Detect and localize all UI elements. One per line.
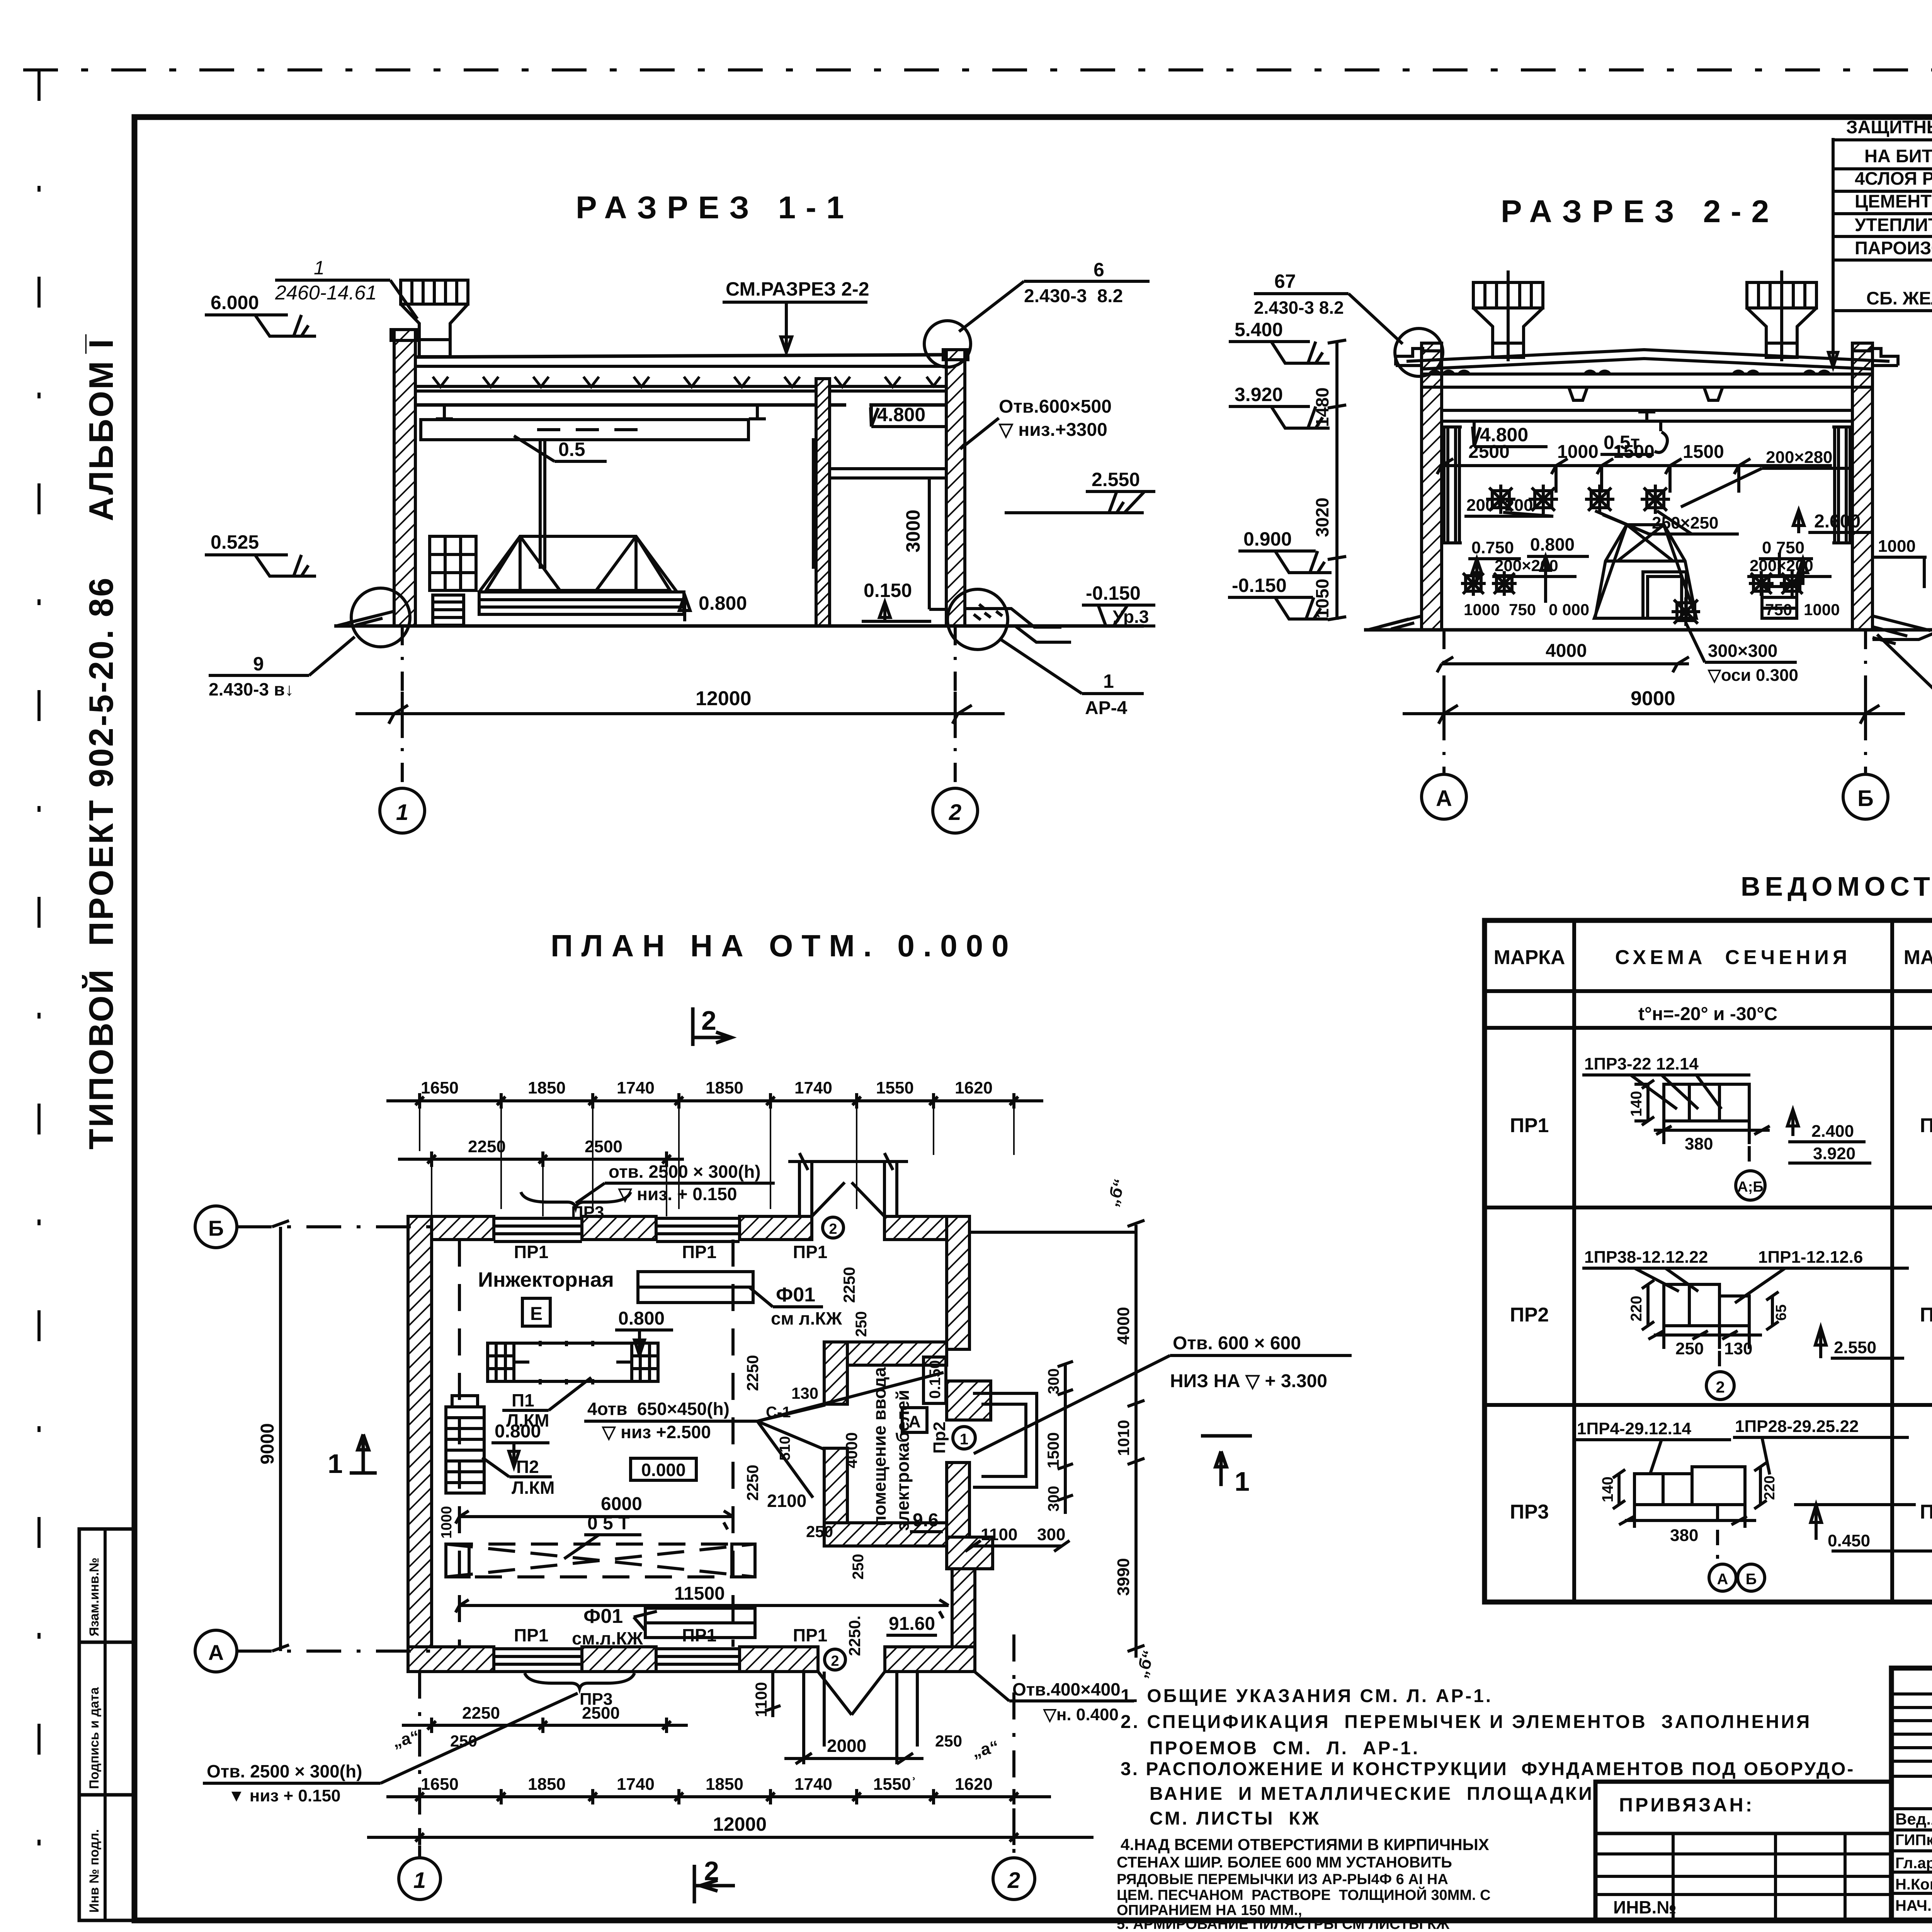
- svg-text:А: А: [1436, 786, 1452, 811]
- svg-text:НИЗ НА ▽ + 3.300: НИЗ НА ▽ + 3.300: [1170, 1371, 1327, 1391]
- svg-text:0.800: 0.800: [618, 1308, 665, 1329]
- svg-text:С-1: С-1: [766, 1404, 791, 1421]
- svg-text:1650: 1650: [421, 1078, 459, 1097]
- svg-text:1010: 1010: [1114, 1420, 1133, 1456]
- svg-text:ПР1: ПР1: [1510, 1114, 1549, 1137]
- svg-text:0.800: 0.800: [699, 592, 747, 614]
- svg-text:Отв.600×500: Отв.600×500: [999, 396, 1112, 417]
- Ф01 beam bottom: [645, 1608, 755, 1638]
- svg-text:1850: 1850: [528, 1078, 566, 1097]
- svg-text:1100: 1100: [752, 1682, 770, 1717]
- svg-text:1650: 1650: [421, 1775, 459, 1794]
- I beam symbol: [1638, 412, 1655, 421]
- pedestal bolts lower left: [1461, 571, 1517, 596]
- outer trim dashed border top: [23, 68, 1932, 71]
- svg-text:А;Б: А;Б: [1737, 1179, 1763, 1195]
- svg-text:П1: П1: [512, 1390, 534, 1410]
- svg-text:65: 65: [1773, 1304, 1789, 1321]
- svg-text:СБ. ЖЕЛ. БЕТ. ПЛИТЫ: СБ. ЖЕЛ. БЕТ. ПЛИТЫ: [1866, 288, 1932, 308]
- top dim row B: [398, 1151, 684, 1167]
- svg-text:1000: 1000: [439, 1506, 455, 1539]
- equipment: ladder left: [433, 595, 464, 625]
- right wall upper: [947, 1216, 969, 1349]
- svg-text:0 750: 0 750: [1762, 538, 1804, 557]
- svg-text:А: А: [908, 1412, 921, 1431]
- svg-text:Б: Б: [1857, 786, 1874, 811]
- svg-text:1550: 1550: [876, 1078, 914, 1097]
- svg-text:4.НАД ВСЕМИ ОТВЕРСТИЯМИ В КИРП: 4.НАД ВСЕМИ ОТВЕРСТИЯМИ В КИРПИЧНЫХ: [1121, 1835, 1489, 1854]
- svg-text:А: А: [208, 1640, 224, 1665]
- verticals: [1572, 920, 1576, 1602]
- svg-text:РЯДОВЫЕ ПЕРЕМЫЧКИ ИЗ АР-РЫ4Ф 6: РЯДОВЫЕ ПЕРЕМЫЧКИ ИЗ АР-РЫ4Ф 6 АI НА: [1117, 1871, 1448, 1888]
- svg-text:2250: 2250: [743, 1355, 762, 1391]
- svg-text:-0.150: -0.150: [1232, 575, 1287, 596]
- monorail dashed: [446, 1544, 755, 1577]
- bottom axis circles: [418, 1672, 421, 1857]
- svg-text:2460-14.61: 2460-14.61: [275, 282, 377, 304]
- svg-text:510: 510: [777, 1436, 793, 1461]
- svg-text:Отв.400×400: Отв.400×400: [1012, 1679, 1121, 1699]
- svg-text:см.л.КЖ: см.л.КЖ: [572, 1628, 643, 1648]
- svg-text:1: 1: [1235, 1466, 1250, 1497]
- svg-text:см л.КЖ: см л.КЖ: [771, 1308, 842, 1328]
- svg-text:▽ низ. + 0.150: ▽ низ. + 0.150: [617, 1184, 737, 1204]
- svg-text:750: 750: [1765, 600, 1792, 619]
- roof rib ticks: [433, 377, 940, 387]
- svg-text:2250: 2250: [462, 1704, 500, 1723]
- svg-text:0.150: 0.150: [927, 1360, 944, 1399]
- vent shaft 2: [1747, 270, 1816, 361]
- svg-text:Е: Е: [530, 1304, 543, 1324]
- axis Б: [195, 1206, 237, 1248]
- svg-text:1850: 1850: [706, 1078, 743, 1097]
- svg-text:▼ низ + 0.150: ▼ низ + 0.150: [228, 1786, 341, 1805]
- top tambour walls: [799, 1162, 897, 1216]
- svg-text:2: 2: [701, 1005, 716, 1036]
- svg-text:0.900: 0.900: [1243, 528, 1292, 550]
- svg-text:4.800: 4.800: [877, 404, 925, 425]
- LEFT MARGIN: [79, 334, 134, 1920]
- svg-text:2.550: 2.550: [1092, 469, 1140, 490]
- tambour dim line: [788, 1153, 908, 1170]
- ПР3 brace bottom: [525, 1673, 634, 1689]
- svg-text:▽ низ.+3300: ▽ низ.+3300: [998, 420, 1107, 440]
- bottom wall: [408, 1647, 975, 1672]
- svg-text:140: 140: [1628, 1091, 1645, 1117]
- vent shaft top: [401, 280, 468, 357]
- top dim row A: [386, 1093, 1043, 1109]
- svg-text:ЦЕМЕНТНО-ПЕСЧАНАЯ СТЯЖКА М50: ЦЕМЕНТНО-ПЕСЧАНАЯ СТЯЖКА М50 7÷15 ММ ПО …: [1855, 191, 1932, 211]
- top wall: [408, 1216, 947, 1240]
- detail circle left: [351, 588, 410, 647]
- svg-text:3990: 3990: [1114, 1558, 1133, 1596]
- svg-text:1000: 1000: [1878, 537, 1916, 556]
- svg-text:Отв. 2500 × 300(h): Отв. 2500 × 300(h): [207, 1761, 362, 1781]
- monorail beam: [421, 420, 748, 440]
- svg-text:0 000: 0 000: [1549, 600, 1589, 619]
- left wall: [1422, 343, 1442, 630]
- svg-text:0.450: 0.450: [1828, 1531, 1870, 1550]
- equipment: left cabinet grid: [430, 536, 684, 625]
- svg-text:ПР1: ПР1: [514, 1242, 548, 1262]
- svg-text:9.6: 9.6: [913, 1510, 939, 1531]
- pit detail right (AP-4): [965, 609, 1071, 642]
- detail circle top right: [924, 321, 971, 367]
- right wall (hatched): [946, 350, 965, 626]
- tambour door swing: [812, 1182, 884, 1216]
- porch outside right: [973, 1393, 1037, 1487]
- svg-text:1: 1: [960, 1431, 968, 1448]
- svg-text:1ПР1-12.12.6: 1ПР1-12.12.6: [1758, 1248, 1863, 1267]
- svg-text:ПРИВЯЗАН:: ПРИВЯЗАН:: [1619, 1794, 1754, 1816]
- svg-text:1. ОБЩИЕ УКАЗАНИЯ СМ. Л. АР-1.: 1. ОБЩИЕ УКАЗАНИЯ СМ. Л. АР-1.: [1121, 1686, 1493, 1706]
- svg-text:1ПР4-29.12.14: 1ПР4-29.12.14: [1577, 1419, 1691, 1438]
- svg-text:отв. 2500 × 300(h): отв. 2500 × 300(h): [609, 1162, 761, 1182]
- hanging panel left: [540, 440, 545, 567]
- svg-text:250: 250: [1675, 1339, 1704, 1358]
- svg-text:140: 140: [1599, 1476, 1616, 1502]
- roof slab with bumps: [1422, 374, 1872, 387]
- bottom dim: 1100 vert: [765, 1672, 781, 1717]
- extension verticals top: [420, 1101, 1014, 1216]
- svg-text:3000: 3000: [902, 510, 924, 553]
- svg-text:НАЧ.АСО: НАЧ.АСО: [1895, 1897, 1932, 1914]
- svg-text:ВЕДОМОСТЬ ПЕРЕМЫЧЕК: ВЕДОМОСТЬ ПЕРЕМЫЧЕК: [1741, 871, 1932, 901]
- left pilaster: [1442, 427, 1462, 543]
- 11500 dim: [456, 1600, 949, 1618]
- svg-text:ПАРОИЗОЛЯЦИЯ – СМАЗКА ГОРЯЧИМ: ПАРОИЗОЛЯЦИЯ – СМАЗКА ГОРЯЧИМ БИТУМОМ ЗА: [1855, 238, 1932, 258]
- horizontals: [1485, 989, 1932, 993]
- svg-text:ПР1: ПР1: [793, 1242, 827, 1262]
- svg-text:0.525: 0.525: [211, 531, 259, 553]
- svg-text:Язам.инв.№: Язам.инв.№: [87, 1558, 102, 1636]
- svg-text:Ф01: Ф01: [583, 1605, 623, 1628]
- bottom vestibule walls: [804, 1672, 917, 1747]
- svg-text:ПР1: ПР1: [793, 1625, 827, 1645]
- right outer dim chain: [1128, 1220, 1145, 1658]
- section mark 2 top: [693, 1007, 731, 1046]
- svg-text:1: 1: [396, 800, 408, 825]
- 6000 dim: [456, 1511, 733, 1529]
- svg-text:СТЕНАХ ШИР. БОЛЕЕ 600 ММ УСТАН: СТЕНАХ ШИР. БОЛЕЕ 600 ММ УСТАНОВИТЬ: [1117, 1854, 1452, 1871]
- dim 9000: [1403, 692, 1905, 738]
- svg-text:ПР1: ПР1: [682, 1242, 716, 1262]
- stamp column boxes: [79, 1529, 134, 1920]
- svg-text:2250.: 2250.: [845, 1616, 864, 1656]
- svg-text:3.920: 3.920: [1813, 1144, 1855, 1163]
- axis circle 1: [380, 788, 425, 833]
- door mark top: [823, 1217, 844, 1238]
- bottom wall window lines: [494, 1649, 740, 1672]
- parapet left cap: [391, 330, 418, 340]
- svg-text:ПР2: ПР2: [1510, 1304, 1549, 1326]
- svg-text:ПЛАН НА ОТМ. 0.000: ПЛАН НА ОТМ. 0.000: [551, 929, 1017, 963]
- svg-text:1740: 1740: [794, 1078, 832, 1097]
- svg-text:2: 2: [829, 1221, 837, 1237]
- svg-text:2.430-3 в↓: 2.430-3 в↓: [209, 679, 294, 699]
- embankment left: [336, 611, 394, 626]
- svg-text:300: 300: [1037, 1525, 1065, 1544]
- svg-text:ПР3: ПР3: [1920, 1501, 1932, 1523]
- svg-text:250: 250: [853, 1311, 870, 1337]
- svg-text:ТИПОВОЙ ПРОЕКТ 902-5-20. 86: ТИПОВОЙ ПРОЕКТ 902-5-20. 86 АЛЬБОМ I̅: [82, 334, 120, 1150]
- svg-text:2: 2: [831, 1653, 839, 1669]
- hanging panel right: [813, 440, 818, 567]
- svg-text:Пр2: Пр2: [930, 1422, 949, 1454]
- svg-text:2100: 2100: [767, 1491, 806, 1511]
- svg-text:1100: 1100: [981, 1525, 1017, 1544]
- svg-text:4СЛОЯ РУБЕРОИДА Рэм-350 НА БИТ: 4СЛОЯ РУБЕРОИДА Рэм-350 НА БИТУМНОЙ МАСТ…: [1855, 168, 1932, 189]
- door mark right: [953, 1427, 975, 1449]
- svg-text:0 5 Т: 0 5 Т: [587, 1513, 629, 1534]
- svg-text:ПР2: ПР2: [1920, 1304, 1932, 1326]
- svg-text:2250: 2250: [840, 1267, 858, 1303]
- ПР1 left diagram: [1582, 1054, 1871, 1200]
- svg-text:▽оси 0.300: ▽оси 0.300: [1708, 666, 1798, 685]
- svg-text:МАРКА: МАРКА: [1904, 946, 1932, 969]
- svg-text:Б: Б: [1746, 1571, 1757, 1588]
- svg-text:3020: 3020: [1312, 498, 1332, 537]
- svg-text:Отв. 600 × 600: Отв. 600 × 600: [1173, 1333, 1301, 1354]
- dim 4000: [1437, 657, 1689, 672]
- svg-text:СМ.РАЗРЕЗ 2-2: СМ.РАЗРЕЗ 2-2: [726, 278, 869, 300]
- door mark bottom: [825, 1649, 845, 1670]
- 0.000 box: [631, 1458, 696, 1480]
- privyazan block: [1595, 1782, 1891, 1920]
- svg-text:250: 250: [850, 1554, 867, 1580]
- roof slope top lines: [1406, 350, 1889, 361]
- svg-text:380: 380: [1685, 1134, 1713, 1153]
- mezzanine slab right: [830, 469, 946, 478]
- svg-text:4000: 4000: [1114, 1307, 1133, 1345]
- svg-text:2. СПЕЦИФИКАЦИЯ ПЕРЕМЫЧЕК И Э: 2. СПЕЦИФИКАЦИЯ ПЕРЕМЫЧЕК И ЭЛЕМЕНТОВ ЗА…: [1121, 1712, 1811, 1732]
- anchor bolts upper row: [1486, 485, 1670, 514]
- svg-text:ПР1: ПР1: [1920, 1114, 1932, 1137]
- svg-text:ЗАЩИТНЫЙ СЛОЙ ГРАВИЯ Мрз 100 С: ЗАЩИТНЫЙ СЛОЙ ГРАВИЯ Мрз 100 СВЕТЛЫХ ТОН…: [1846, 117, 1932, 137]
- svg-text:1000: 1000: [1804, 600, 1840, 619]
- svg-text:▽ низ +2.500: ▽ низ +2.500: [601, 1422, 711, 1442]
- svg-text:6000: 6000: [601, 1494, 642, 1514]
- dimension 12000: [355, 692, 1005, 738]
- ground line: [1364, 628, 1932, 632]
- svg-text:2: 2: [704, 1856, 719, 1886]
- embankment right: [1872, 616, 1932, 644]
- svg-text:5. АРМИРОВАНИЕ ПИЛЯСТРЫ СМ ЛИС: 5. АРМИРОВАНИЕ ПИЛЯСТРЫ СМ ЛИСТЫ КЖ: [1117, 1916, 1450, 1932]
- svg-text:ПРОЕМОВ СМ. Л. АР-1.: ПРОЕМОВ СМ. Л. АР-1.: [1150, 1738, 1420, 1759]
- svg-text:1ПР38-12.12.22: 1ПР38-12.12.22: [1584, 1248, 1708, 1267]
- svg-text:Вед.Арх.: Вед.Арх.: [1895, 1810, 1932, 1828]
- svg-text:1: 1: [413, 1868, 426, 1893]
- svg-text:2: 2: [1716, 1378, 1725, 1396]
- svg-text:2250: 2250: [743, 1465, 762, 1501]
- svg-text:200×280: 200×280: [1766, 448, 1833, 467]
- right wall: [1852, 343, 1872, 630]
- svg-text:1740: 1740: [617, 1078, 655, 1097]
- svg-text:1500: 1500: [1683, 442, 1724, 462]
- svg-text:4.800: 4.800: [1480, 424, 1528, 446]
- right pilaster: [1832, 427, 1852, 543]
- б tie line: [969, 1231, 1136, 1234]
- left wall: [408, 1216, 432, 1672]
- svg-text:2.600: 2.600: [1814, 511, 1861, 532]
- left wall (hatched): [394, 330, 415, 626]
- vertical dims 1480/3020/1050: [1328, 340, 1346, 620]
- svg-text:помещение ввода: помещение ввода: [869, 1367, 889, 1526]
- svg-text:t°н=-20° и -30°С: t°н=-20° и -30°С: [1638, 1004, 1777, 1024]
- right wall pier at door: [947, 1381, 991, 1420]
- svg-text:ИНВ.№: ИНВ.№: [1613, 1897, 1677, 1917]
- svg-text:2: 2: [1007, 1868, 1020, 1893]
- svg-text:2.430-3 8.2: 2.430-3 8.2: [1254, 298, 1344, 318]
- svg-text:1ПР28-29.25.22: 1ПР28-29.25.22: [1735, 1417, 1859, 1436]
- svg-text:1500: 1500: [1044, 1432, 1062, 1468]
- svg-text:0.5т: 0.5т: [1604, 432, 1640, 453]
- svg-text:380: 380: [1670, 1526, 1698, 1545]
- equipment base slab: [479, 592, 684, 614]
- bottom dim row B: [402, 1718, 688, 1733]
- left cornice: [1396, 349, 1443, 366]
- svg-text:300: 300: [1045, 1486, 1062, 1512]
- interior partition wall: [816, 379, 830, 626]
- svg-text:2250: 2250: [468, 1137, 506, 1156]
- svg-text:91.60: 91.60: [889, 1614, 935, 1634]
- svg-text:1620: 1620: [955, 1775, 993, 1794]
- svg-text:4отв 650×450(h): 4отв 650×450(h): [587, 1399, 730, 1419]
- svg-text:200×200: 200×200: [1495, 556, 1558, 575]
- svg-text:9: 9: [253, 653, 264, 675]
- svg-text:200×200: 200×200: [1750, 556, 1813, 575]
- svg-text:ЦЕМ. ПЕСЧАНОМ РАСТВОРЕ ТОЛЩИ: ЦЕМ. ПЕСЧАНОМ РАСТВОРЕ ТОЛЩИНОЙ 30ММ. С: [1117, 1886, 1491, 1903]
- inner room left wall lower: [824, 1448, 847, 1546]
- svg-text:0.5: 0.5: [558, 439, 585, 460]
- svg-text:750: 750: [1509, 600, 1536, 619]
- svg-text:2: 2: [949, 800, 961, 825]
- svg-text:1850: 1850: [706, 1775, 743, 1794]
- svg-text:0.000: 0.000: [641, 1460, 685, 1480]
- svg-text:ГИПконст.: ГИПконст.: [1895, 1832, 1932, 1849]
- bottom dim 2000: [784, 1672, 923, 1764]
- ПР3 left diagram: [1575, 1417, 1932, 1591]
- slab ribs: [1569, 387, 1723, 400]
- equipment П1: [488, 1341, 658, 1384]
- svg-text:1000: 1000: [1464, 600, 1500, 619]
- svg-text:РАЗРЕЗ 1-1: РАЗРЕЗ 1-1: [576, 190, 854, 225]
- svg-text:1000: 1000: [1557, 442, 1599, 462]
- svg-text:2500: 2500: [585, 1137, 622, 1156]
- svg-text:12000: 12000: [713, 1813, 767, 1835]
- ПР2 left diagram: [1582, 1248, 1909, 1400]
- section mark 1 right (T1): [1201, 1436, 1252, 1486]
- svg-text:130: 130: [1724, 1339, 1752, 1358]
- placeholder groups: [205, 190, 1155, 833]
- 9000 dim left: [272, 1221, 289, 1651]
- roofing top line: [415, 355, 946, 357]
- Ф01 beam top: [638, 1272, 753, 1303]
- svg-text:2.430-3 8.2: 2.430-3 8.2: [1024, 286, 1123, 306]
- svg-text:0.750: 0.750: [1471, 538, 1514, 557]
- right cornice: [1851, 349, 1898, 366]
- monorail hangers: [436, 406, 766, 419]
- svg-text:1050: 1050: [1312, 579, 1332, 618]
- svg-text:СХЕМА СЕЧЕНИЯ: СХЕМА СЕЧЕНИЯ: [1615, 946, 1851, 969]
- inner room top wall: [824, 1342, 947, 1365]
- svg-text:ПР3: ПР3: [571, 1203, 604, 1222]
- svg-text:220: 220: [1628, 1296, 1645, 1321]
- svg-text:11500: 11500: [674, 1583, 725, 1604]
- parapet right cap: [943, 350, 968, 360]
- svg-text:МАРКА: МАРКА: [1494, 946, 1565, 969]
- 0.150 boxed rot: [923, 1357, 946, 1403]
- detail circle right: [947, 589, 1008, 650]
- equipment П2: [446, 1396, 484, 1493]
- svg-text:0.800: 0.800: [1530, 534, 1575, 554]
- svg-text:ПР3: ПР3: [580, 1690, 612, 1709]
- svg-text:1740: 1740: [617, 1775, 655, 1794]
- svg-text:Н.Контр.: Н.Контр.: [1895, 1876, 1932, 1893]
- inner room left wall upper: [824, 1342, 847, 1404]
- table frame: [1485, 920, 1932, 1602]
- embankment left: [1368, 616, 1422, 630]
- svg-text:АР-4: АР-4: [1085, 698, 1128, 718]
- center pedestal 300x300: [1672, 597, 1700, 626]
- svg-text:ПР1: ПР1: [514, 1625, 548, 1645]
- E box: [522, 1298, 550, 1326]
- svg-text:1850: 1850: [528, 1775, 566, 1794]
- axis А: [195, 1630, 237, 1672]
- svg-text:Инв № подл.: Инв № подл.: [87, 1829, 102, 1913]
- svg-text:5.400: 5.400: [1235, 319, 1283, 340]
- svg-text:3.920: 3.920: [1235, 384, 1283, 405]
- svg-text:2.400: 2.400: [1811, 1122, 1854, 1141]
- ladder right of hopper: [1762, 553, 1797, 618]
- svg-text:250: 250: [935, 1732, 962, 1750]
- svg-text:9000: 9000: [1631, 687, 1675, 710]
- svg-text:2.550: 2.550: [1834, 1338, 1876, 1357]
- top wall window lines: [494, 1218, 740, 1242]
- axis circle А: [1422, 774, 1466, 819]
- svg-text:3. РАСПОЛОЖЕНИЕ И КОНСТРУКЦИИ: 3. РАСПОЛОЖЕНИЕ И КОНСТРУКЦИИ ФУНДАМЕНТО…: [1121, 1759, 1855, 1779]
- svg-text:220: 220: [1762, 1476, 1778, 1500]
- svg-text:П2: П2: [516, 1457, 539, 1477]
- dim chain upper 2500/1000/1500/1500: [1437, 459, 1832, 474]
- bottom dim row A: [386, 1789, 1051, 1804]
- right inner dim chain: [1058, 1361, 1073, 1514]
- svg-text:6.000: 6.000: [211, 292, 259, 313]
- right wall jog at room corner: [947, 1537, 993, 1569]
- thin rows left part: [1891, 1694, 1932, 1893]
- svg-text:1ПР3-22 12.14: 1ПР3-22 12.14: [1584, 1054, 1699, 1073]
- svg-text:1: 1: [314, 257, 325, 279]
- svg-text:РАЗРЕЗ 2-2: РАЗРЕЗ 2-2: [1501, 194, 1779, 229]
- svg-text:ПР3: ПР3: [1510, 1501, 1549, 1523]
- svg-text:12000: 12000: [696, 687, 752, 710]
- roof slab band: [415, 366, 946, 386]
- svg-text:НА БИТУМНОЙ МАСТИКЕ *): НА БИТУМНОЙ МАСТИКЕ *): [1864, 146, 1932, 166]
- axis circle Б: [1843, 774, 1888, 819]
- svg-text:300: 300: [1045, 1368, 1062, 1394]
- svg-text:9000: 9000: [257, 1423, 278, 1464]
- section mark 2 bottom: [694, 1865, 735, 1903]
- svg-text:УТЕПЛИТЕЛЬ ПЕНОБЕТОН γо=500кг/: УТЕПЛИТЕЛЬ ПЕНОБЕТОН γо=500кг/м³: [1855, 214, 1932, 235]
- svg-text:1550ʾ: 1550ʾ: [873, 1775, 917, 1794]
- svg-text:2000: 2000: [827, 1736, 866, 1756]
- svg-text:Л.КМ: Л.КМ: [512, 1478, 554, 1498]
- axis drop lines: [401, 626, 404, 786]
- svg-text:4000: 4000: [1546, 641, 1587, 661]
- svg-text:Б: Б: [208, 1216, 224, 1240]
- ПР3 brace top: [521, 1192, 631, 1207]
- vent shaft 1: [1473, 270, 1543, 361]
